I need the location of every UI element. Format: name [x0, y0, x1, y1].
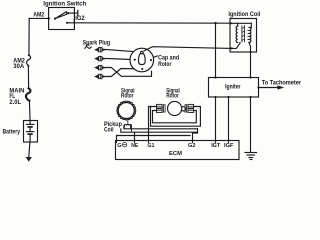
wire igniter ground	[250, 97, 252, 152]
ignition switch blade and contacts	[48, 17, 50, 19]
fuse AM2 30A	[28, 54, 30, 56]
svg-text:30A: 30A	[13, 64, 24, 70]
switch upper terminal stub	[68, 12, 78, 14]
igniter terminals	[214, 76, 216, 78]
svg-text:G: G	[117, 143, 121, 149]
signal rotor G circle	[168, 101, 182, 115]
coil primary winding	[236, 26, 238, 43]
signal rotor gear body (NE)	[118, 103, 134, 119]
ECM terminal ticks	[116, 141, 118, 143]
coil HT terminal	[230, 47, 232, 49]
wire to tachometer with arrow	[259, 87, 279, 89]
battery B1	[24, 121, 38, 143]
cap contact right	[150, 59, 152, 61]
coil primary terminal	[230, 22, 232, 24]
cap contact bottom	[141, 68, 143, 70]
plug wire 1 to cap	[106, 50, 138, 52]
svg-text:Igniter: Igniter	[225, 85, 241, 91]
signal rotor G tooth	[181, 107, 185, 111]
plug wire 4 crossing to cap bottom contact	[106, 69, 142, 77]
spark gap squiggle	[85, 47, 91, 49]
svg-text:AM2: AM2	[33, 12, 45, 18]
cap contact left	[134, 59, 136, 61]
ignition switch box	[49, 8, 75, 30]
ground chassis arrow below battery	[26, 157, 32, 162]
svg-text:ECM: ECM	[169, 151, 182, 157]
svg-text:2.0L: 2.0L	[9, 100, 21, 106]
ignition coil box	[230, 19, 257, 53]
ground earth symbol right	[245, 152, 257, 154]
svg-text:G1: G1	[147, 143, 154, 149]
svg-text:To Tachometer: To Tachometer	[262, 81, 302, 87]
svg-text:IG2: IG2	[75, 16, 85, 22]
wire IG2 to ignition coil	[67, 22, 231, 24]
svg-text:Spark Plug: Spark Plug	[83, 40, 111, 46]
wire igniter IGF to ECM	[228, 97, 230, 141]
coil secondary to igniter	[249, 42, 251, 52]
wire bus NE pickup	[124, 126, 198, 129]
ECM box	[116, 141, 240, 160]
leader line cap label	[154, 56, 158, 58]
wire NE pickup right lead	[130, 126, 132, 129]
wire AM2 feed horizontal top-left	[29, 17, 49, 19]
coil core	[241, 26, 243, 42]
switch IG2 contact	[66, 22, 68, 24]
pickup coil NE leads	[123, 126, 125, 129]
svg-text:Battery: Battery	[3, 129, 21, 135]
svg-text:G2: G2	[188, 143, 196, 149]
distributor cap circle	[130, 48, 154, 72]
spark plug 2	[94, 56, 106, 60]
fusible link MAIN FL 2.0L	[26, 88, 30, 100]
plug wire 2 to cap left contact	[106, 59, 134, 60]
wire igniter IGT to ECM	[215, 97, 217, 141]
wire outer loop H2	[151, 107, 201, 127]
pickup G right pads	[188, 104, 194, 108]
wire left battery rail vertical	[28, 18, 30, 55]
svg-text:Cap and: Cap and	[158, 55, 179, 61]
wire G1 pickup to ECM	[149, 107, 157, 141]
svg-text:Coil: Coil	[104, 128, 114, 134]
wire staircase to G2	[193, 129, 198, 141]
spark plug 1	[94, 48, 106, 52]
svg-text:Rotor: Rotor	[158, 62, 172, 68]
wire coil to igniter	[250, 52, 252, 78]
plug wire 3 to cap bottom loop	[106, 68, 152, 77]
coil internal top bus	[231, 22, 252, 24]
pickup coil core stub	[127, 121, 129, 123]
svg-text:Rotor: Rotor	[166, 94, 179, 100]
wire battery to ground	[29, 142, 30, 157]
spark plug 3	[94, 65, 106, 69]
svg-text:NE: NE	[131, 143, 138, 149]
svg-text:Ignition Switch: Ignition Switch	[43, 1, 86, 7]
terminal tick IG2	[73, 20, 75, 23]
rotor bulb inside cap	[138, 53, 145, 64]
igniter box	[209, 78, 259, 98]
wire igniter B feed vertical	[215, 23, 217, 77]
svg-text:IGF: IGF	[224, 143, 234, 149]
pickup G left pads	[157, 104, 163, 108]
spark plug 4	[94, 74, 106, 78]
svg-text:Ignition Coil: Ignition Coil	[228, 12, 260, 18]
wire bus mid with NE drop	[121, 129, 198, 132]
signal rotor gear teeth (NE)	[117, 101, 136, 120]
svg-text:IGT: IGT	[211, 143, 221, 149]
wire NE signal to ECM	[134, 132, 136, 140]
pickup coil NE bumps	[124, 124, 131, 125]
coil secondary winding	[249, 27, 251, 42]
high tension wire cap to coil	[144, 47, 232, 51]
junction IG2/igniter feed	[214, 22, 216, 24]
svg-text:Rotor: Rotor	[121, 94, 134, 100]
wire inner loop H1	[153, 111, 197, 123]
wire ground bus to G-	[117, 136, 191, 141]
